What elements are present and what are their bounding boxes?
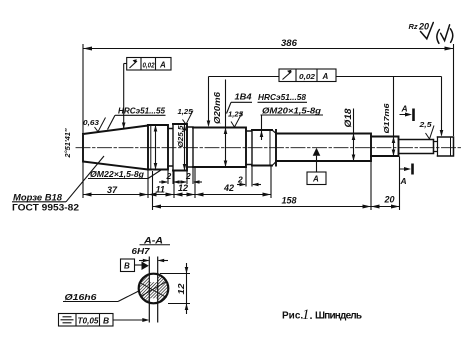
dim 386 line xyxy=(83,48,454,50)
flat diagonals xyxy=(141,283,167,298)
centerline xyxy=(76,147,462,149)
svg-text:В: В xyxy=(124,262,130,271)
svg-text:2: 2 xyxy=(237,175,243,185)
dia dim line 25,5 xyxy=(184,125,186,170)
thread runout xyxy=(272,130,276,166)
section arrow head bottom xyxy=(404,167,411,171)
svg-text:Морзе В18: Морзе В18 xyxy=(13,193,62,203)
thread section M20 xyxy=(252,130,276,166)
section A-A hatched circle xyxy=(139,274,169,304)
svg-text:А: А xyxy=(322,72,329,81)
slot width dim 6H7 xyxy=(139,260,168,262)
svg-text:А: А xyxy=(159,61,166,70)
dim 20 line xyxy=(371,206,400,208)
svg-text:ØМ20×1,5-8g: ØМ20×1,5-8g xyxy=(262,106,322,116)
groove 4 xyxy=(434,137,438,156)
dim 158 line xyxy=(153,206,372,208)
symmetry tolerance frame xyxy=(59,314,148,327)
frame2 right leader horizontal xyxy=(336,76,442,78)
morse taper cone xyxy=(83,125,148,170)
arrowheads 158 / 20 xyxy=(153,205,162,209)
dim 12 arrowhead top xyxy=(185,267,189,274)
svg-text:Рис.: Рис. xyxy=(282,311,303,322)
svg-text:HRCэ51...58: HRCэ51...58 xyxy=(258,92,306,102)
extension line x399 xyxy=(399,157,401,211)
section plane marks A xyxy=(413,109,414,175)
svg-text:2,5: 2,5 xyxy=(418,120,432,129)
dim 12 depth xyxy=(160,263,190,314)
dia dim line 17m6 / frame2 leader drop xyxy=(393,77,395,156)
extension line x83 xyxy=(82,162,84,198)
svg-text:42: 42 xyxy=(223,183,234,193)
small groove dims "2" xyxy=(159,166,261,187)
section dia 17m6 xyxy=(371,137,399,157)
svg-text:Ø18: Ø18 xyxy=(343,109,353,128)
svg-text:0,02: 0,02 xyxy=(299,72,316,81)
arrowheads 386 xyxy=(83,47,92,51)
svg-text:1В4: 1В4 xyxy=(235,92,252,102)
svg-text:2°51′41″: 2°51′41″ xyxy=(63,128,72,158)
extension line x371 xyxy=(370,162,372,211)
frame2 left leader drop to dia20 xyxy=(208,77,210,126)
6H7 arrowhead right xyxy=(158,259,165,263)
chain dim line 37-11-12-42 xyxy=(83,194,271,196)
section dia 18 xyxy=(276,134,371,162)
groove 3 xyxy=(246,130,252,166)
svg-text:12: 12 xyxy=(177,283,186,295)
svg-text:386: 386 xyxy=(281,38,298,49)
svg-text:ГОСТ 9953-82: ГОСТ 9953-82 xyxy=(12,203,79,214)
svg-text:ØМ22×1,5-8g: ØМ22×1,5-8g xyxy=(90,169,145,179)
svg-text:12: 12 xyxy=(178,183,188,193)
dim 386 extension lines xyxy=(82,44,84,133)
svg-text:0,02: 0,02 xyxy=(143,61,156,70)
feature control frame 1 runout 0,02 A xyxy=(124,58,171,129)
extension line x152 xyxy=(152,171,154,210)
thread section M22 xyxy=(148,125,168,170)
svg-text:А-А: А-А xyxy=(143,236,163,246)
svg-text:2: 2 xyxy=(185,171,191,181)
arrowheads chain xyxy=(83,193,92,197)
section dia 25.5 xyxy=(173,124,187,171)
svg-text:2: 2 xyxy=(166,171,172,181)
dim 386 right extension line xyxy=(453,44,455,136)
extension line x174 xyxy=(173,171,175,198)
svg-text:А: А xyxy=(312,175,319,184)
extension line x148 xyxy=(147,170,149,198)
frame2 runout symbol arrowhead xyxy=(287,70,291,74)
datum B triangle xyxy=(142,262,149,271)
svg-text:37: 37 xyxy=(107,185,118,195)
svg-text:А: А xyxy=(401,104,408,114)
svg-text:Ø17m6: Ø17m6 xyxy=(382,103,391,134)
groove 1 xyxy=(168,124,173,171)
datum B box xyxy=(121,259,135,272)
svg-text:Rz: Rz xyxy=(409,22,418,31)
svg-text:0,63: 0,63 xyxy=(83,118,100,127)
svg-text:HRCэ51...55: HRCэ51...55 xyxy=(118,106,165,116)
svg-text:Шпиндель: Шпиндель xyxy=(315,311,362,322)
frame1 leader arrowhead on cone xyxy=(122,123,126,130)
frame1 runout symbol arrowhead xyxy=(133,59,137,63)
section arrow head top xyxy=(405,113,412,117)
svg-text:11: 11 xyxy=(156,185,165,195)
extension line x271 xyxy=(270,166,272,198)
frame2 left leader horizontal xyxy=(209,76,280,78)
M20 leader arrowhead xyxy=(260,131,264,138)
svg-text:20: 20 xyxy=(384,195,395,205)
svg-text:158: 158 xyxy=(282,196,297,206)
svg-text:Ø25,5: Ø25,5 xyxy=(176,125,185,148)
svg-text:Т0,05: Т0,05 xyxy=(78,316,99,326)
end cap xyxy=(438,137,454,156)
dia dim line 18 xyxy=(353,109,355,161)
svg-text:А: А xyxy=(400,176,407,186)
dim 12 arrowhead bottom xyxy=(185,304,189,311)
svg-text:Ø20m6: Ø20m6 xyxy=(212,92,222,124)
slot edges xyxy=(148,257,150,323)
svg-text:В: В xyxy=(103,316,109,326)
symmetry frame leader arrowhead xyxy=(142,318,149,322)
section dia 20m6 xyxy=(193,128,246,168)
svg-text:1.: 1. xyxy=(302,307,313,323)
svg-text:6Н7: 6Н7 xyxy=(132,247,151,256)
rotated dia labels + internal dim lines xyxy=(156,77,442,170)
dia dim line 20m6 xyxy=(225,80,227,167)
section dia 16 end xyxy=(399,140,434,154)
svg-text:20: 20 xyxy=(418,22,429,32)
svg-text:Ø16h6: Ø16h6 xyxy=(65,292,97,302)
feature control frame 2 runout 0,02 A xyxy=(279,69,336,82)
dia dim line M22 xyxy=(155,126,157,169)
extension line x195 xyxy=(194,168,196,199)
groove 2 xyxy=(187,127,193,167)
frame2 right leader drop to end cap xyxy=(441,77,443,136)
datum A triangle and box xyxy=(313,148,321,156)
dia dim arrowheads xyxy=(154,121,444,171)
6H7 arrowhead left xyxy=(143,259,150,263)
